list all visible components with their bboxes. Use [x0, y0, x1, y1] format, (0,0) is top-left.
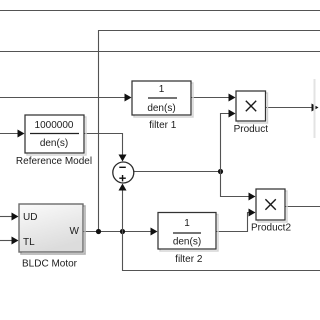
wire filter 2 output to Product2 second input [216, 209, 256, 232]
wire from W junction up to sum plus input [119, 184, 127, 232]
wire input to Reference Model (from left edge) [0, 130, 25, 138]
wire input TL to BLDC Motor (from left edge) [0, 237, 19, 245]
svg-text:den(s): den(s) [147, 103, 175, 114]
label filter 1 [149, 120, 177, 131]
wire Product2 output to right edge [285, 206, 320, 208]
svg-text:Product: Product [234, 124, 269, 135]
sum block (circle with minus and plus) [113, 162, 134, 183]
svg-text:filter 1: filter 1 [149, 120, 177, 131]
label Reference Model [16, 156, 92, 167]
wire Product output to right edge block [266, 104, 319, 112]
wire top line B (from feedback corner to right edge) [98, 30, 320, 32]
block filter 1 [132, 81, 193, 117]
svg-text:1: 1 [184, 218, 190, 229]
label Product [234, 124, 269, 135]
wire top line A (full width) [0, 10, 320, 12]
wire input UD to BLDC Motor (from left edge) [0, 213, 19, 221]
svg-text:1: 1 [159, 84, 165, 95]
svg-text:den(s): den(s) [173, 237, 201, 248]
svg-text:W: W [70, 226, 80, 237]
block filter 2 [158, 213, 218, 252]
block Product2 [256, 189, 287, 222]
wire top line C (full width) [0, 51, 320, 53]
svg-text:filter 2: filter 2 [175, 254, 203, 265]
wire junction down to Product2 first input [221, 172, 256, 201]
svg-text:Product2: Product2 [251, 223, 291, 234]
block Product [236, 91, 268, 123]
svg-text:BLDC Motor: BLDC Motor [22, 259, 78, 270]
svg-text:1000000: 1000000 [35, 120, 74, 131]
svg-text:den(s): den(s) [40, 138, 68, 149]
svg-text:TL: TL [23, 237, 35, 248]
wire feedback vertical from W junction up to top line B [98, 30, 100, 232]
label Product2 [251, 223, 291, 234]
junction dot on W line at sum/bottom branch [120, 229, 125, 234]
svg-text:UD: UD [23, 212, 37, 223]
wire junction up to Product second input [221, 110, 236, 172]
svg-text:Reference Model: Reference Model [16, 156, 92, 167]
wire W output of BLDC Motor to filter 2 input [83, 228, 158, 236]
wire filter 1 output to Product first input [191, 94, 236, 102]
wire from W junction down and right to bottom edge [123, 232, 320, 271]
block BLDC Motor [19, 204, 85, 254]
wire Reference Model output to sum minus input [84, 134, 127, 162]
block Reference Model [25, 115, 86, 155]
wire input to filter 1 (from left edge) [0, 94, 132, 102]
junction dot on sum output line [218, 169, 223, 174]
wire sum output to junction [134, 171, 221, 173]
label BLDC Motor [22, 259, 78, 270]
cropped block edge at right border [314, 79, 316, 138]
label filter 2 [175, 254, 203, 265]
junction dot on W line at feedback branch [96, 229, 101, 234]
